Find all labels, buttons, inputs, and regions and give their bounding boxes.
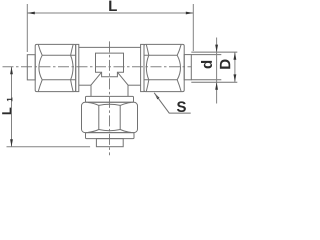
tube inner wall top xyxy=(191,54,221,56)
dimension L1 arrow up xyxy=(10,67,13,75)
dimension L arrow left xyxy=(27,12,35,15)
label D xyxy=(220,60,230,69)
dimension L arrow right xyxy=(186,12,194,15)
right nut hex body xyxy=(144,44,184,91)
tube inner wall bottom xyxy=(191,79,221,81)
dimension d arrow down xyxy=(215,45,218,53)
branch transition right diagonal xyxy=(117,72,128,96)
body tube top line xyxy=(79,46,141,48)
branch lower washer xyxy=(86,133,135,139)
left nut hex body xyxy=(35,44,75,91)
branch washer xyxy=(86,96,134,102)
dimension L extension line right xyxy=(192,4,194,51)
body tube bottom line right xyxy=(128,84,141,86)
dimension D arrow up xyxy=(234,52,237,60)
left nut back ring xyxy=(76,44,79,91)
S leader arrowhead xyxy=(154,93,159,100)
left collar xyxy=(27,55,35,80)
label L1 xyxy=(2,97,12,114)
dimension D line xyxy=(234,52,236,82)
dimension L1 extension line bottom xyxy=(7,146,91,148)
horizontal centerline xyxy=(3,66,192,68)
right nut back ring xyxy=(141,44,144,91)
label L xyxy=(109,1,117,11)
dimension d arrow up xyxy=(215,82,218,90)
S leader line xyxy=(154,93,191,113)
dimension L1 line xyxy=(11,67,13,147)
branch transition left diagonal xyxy=(91,72,102,96)
label S xyxy=(177,101,186,112)
dimension D arrow down xyxy=(234,74,237,82)
dimension L1 arrow down xyxy=(10,139,13,147)
right collar xyxy=(184,55,191,80)
label d xyxy=(201,61,212,69)
dimension L extension line left xyxy=(26,4,28,52)
branch bottom collar xyxy=(96,139,123,147)
dimension L line xyxy=(27,12,193,14)
center block xyxy=(96,53,124,77)
tube outer wall bottom xyxy=(191,81,237,83)
vertical centerline xyxy=(109,41,111,155)
branch nut xyxy=(82,102,138,132)
dimension d line xyxy=(216,38,218,104)
body tube bottom line left xyxy=(79,84,91,86)
tube outer wall top xyxy=(191,51,237,53)
